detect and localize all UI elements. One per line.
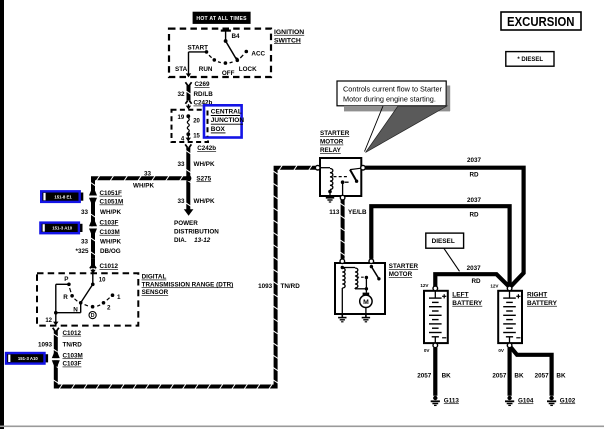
svg-text:32: 32 [177, 91, 185, 98]
svg-text:0V: 0V [498, 348, 505, 353]
svg-text:LOCK: LOCK [239, 66, 257, 73]
wire 33 WH/PK branch to C1051 [93, 178, 186, 190]
svg-text:C103M: C103M [63, 352, 83, 359]
connector C103F C103M [91, 221, 95, 259]
starter motor ground left [341, 314, 343, 317]
relay actuator dashed link [334, 176, 349, 178]
starter motor terminal left [340, 259, 345, 264]
svg-text:HOT AT ALL TIMES: HOT AT ALL TIMES [196, 16, 247, 22]
svg-text:TRANSMISSION RANGE (DTR): TRANSMISSION RANGE (DTR) [142, 281, 234, 288]
svg-text:33: 33 [177, 198, 185, 205]
svg-text:SWITCH: SWITCH [274, 37, 301, 44]
cable 2057 BK left battery to G113 [433, 348, 437, 396]
DTR wire P to pin 12 [56, 283, 69, 285]
svg-text:G113: G113 [444, 397, 460, 404]
svg-text:1: 1 [117, 294, 121, 301]
svg-text:BK: BK [556, 373, 566, 380]
svg-text:IGNITION: IGNITION [274, 29, 304, 36]
arrow out of DTR sensor [53, 322, 58, 326]
svg-text:START: START [188, 45, 209, 52]
svg-text:12V: 12V [420, 283, 429, 288]
svg-text:2037: 2037 [467, 197, 482, 204]
right battery terminal top [507, 286, 512, 291]
cable 2057 BK right battery to G102 [511, 347, 552, 396]
contact RUN [213, 58, 217, 62]
cable 2037 RD left battery link [435, 274, 510, 287]
svg-text:33: 33 [81, 238, 89, 245]
svg-text:C103F: C103F [100, 219, 119, 226]
svg-text:WH/PK: WH/PK [100, 209, 121, 216]
svg-text:RUN: RUN [199, 66, 213, 73]
cable 2037 RD starter to right battery [371, 206, 509, 286]
note box * DIESEL [506, 52, 554, 67]
svg-text:RD: RD [469, 172, 479, 179]
contact LOCK [236, 59, 240, 63]
svg-text:2057: 2057 [535, 373, 550, 380]
relay terminal bottom [340, 195, 345, 200]
cable 2037 RD relay to right battery [365, 168, 523, 287]
starter motor ground right [365, 314, 367, 317]
svg-text:ACC: ACC [251, 50, 265, 57]
starter motor terminal right [369, 259, 374, 264]
connector C103M C103F lower [53, 358, 59, 360]
svg-text:P: P [64, 276, 68, 283]
svg-text:C103M: C103M [100, 229, 120, 236]
svg-text:WH/PK: WH/PK [133, 182, 154, 189]
svg-text:19: 19 [178, 115, 185, 121]
starter solenoid coils [341, 266, 344, 269]
svg-text:15: 15 [193, 133, 200, 139]
digital transmission range sensor box [37, 273, 138, 325]
left battery terminal bottom [433, 343, 438, 348]
testpoint badge 151-3 A10 lower [45, 354, 49, 362]
svg-text:C103F: C103F [63, 361, 82, 368]
svg-text:CENTRAL: CENTRAL [211, 109, 242, 116]
callout pointer [366, 106, 448, 153]
svg-text:BK: BK [514, 373, 524, 380]
central junction box blue label box [204, 105, 242, 137]
arrow to power distribution [184, 209, 194, 216]
ignition switch box [169, 29, 271, 77]
connector C269 [185, 82, 187, 85]
svg-text:BK: BK [442, 373, 452, 380]
svg-text:RD: RD [469, 211, 479, 218]
arrow out of CJB [187, 136, 189, 138]
starter motor armature M [363, 293, 370, 296]
svg-text:2: 2 [107, 304, 111, 311]
svg-text:BOX: BOX [211, 126, 226, 133]
svg-text:STARTER: STARTER [320, 130, 350, 137]
testpoint badge 151-3 A10 upper [79, 224, 83, 232]
relay internal ground [326, 197, 334, 199]
svg-text:WH/PK: WH/PK [194, 161, 215, 168]
svg-text:113: 113 [329, 209, 340, 216]
svg-text:STARTER: STARTER [389, 263, 419, 270]
svg-text:* DIESEL: * DIESEL [517, 57, 543, 63]
relay coil [320, 167, 330, 169]
svg-text:G102: G102 [560, 397, 576, 404]
svg-text:BATTERY: BATTERY [452, 300, 483, 307]
svg-text:33: 33 [81, 209, 89, 216]
CJB fuse element [186, 114, 190, 118]
testpoint badge 151-8 E1 [80, 193, 84, 201]
right battery [498, 291, 522, 343]
svg-text:POWER: POWER [174, 220, 198, 227]
svg-text:STA: STA [175, 66, 188, 73]
svg-text:Controls current flow to Start: Controls current flow to Starter [343, 84, 443, 93]
wire 33 WH/PK upper [186, 147, 190, 176]
svg-text:C269: C269 [195, 81, 211, 88]
svg-text:LEFT: LEFT [452, 291, 468, 298]
svg-text:JUNCTION: JUNCTION [211, 117, 245, 124]
svg-text:RIGHT: RIGHT [527, 291, 547, 298]
svg-text:RD/LB: RD/LB [194, 91, 214, 98]
wire 32 RD/LB [187, 85, 191, 101]
contact START [205, 50, 209, 54]
ground G102 [549, 396, 553, 400]
svg-text:WH/PK: WH/PK [100, 238, 121, 245]
svg-text:R: R [63, 294, 68, 301]
ignition switch wiper B4 to LOCK [224, 39, 228, 43]
svg-text:RELAY: RELAY [320, 147, 342, 154]
arrow into DTR sensor [92, 269, 94, 271]
connector C1012 below DTR [53, 328, 55, 331]
relay contact blade [350, 168, 361, 169]
svg-text:20: 20 [193, 118, 200, 124]
svg-text:MOTOR: MOTOR [389, 271, 413, 278]
svg-text:151-3 A10: 151-3 A10 [18, 356, 39, 361]
svg-text:M: M [363, 299, 369, 306]
svg-text:Motor during engine starting.: Motor during engine starting. [343, 94, 436, 103]
svg-text:151-3 A10: 151-3 A10 [52, 226, 73, 231]
page left edge black bar [0, 0, 4, 429]
power feed label HOT AT ALL TIMES [193, 12, 251, 24]
right battery terminal bottom [507, 343, 512, 348]
svg-text:C242b: C242b [197, 145, 216, 152]
starter motor box [335, 263, 385, 314]
ground G113 [433, 396, 437, 400]
note box DIESEL [426, 233, 464, 248]
central junction box outline [172, 110, 209, 142]
terminal B4 contact bar [221, 30, 231, 32]
page bottom rule line [0, 426, 604, 428]
svg-text:1093: 1093 [38, 342, 53, 349]
left battery terminal top [433, 286, 438, 291]
starter motor relay box [320, 158, 361, 196]
connector C1012 into DTR sensor [91, 258, 95, 268]
svg-text:D: D [91, 313, 95, 319]
svg-text:33: 33 [177, 161, 185, 168]
relay terminal left [315, 165, 320, 170]
svg-text:DIESEL: DIESEL [432, 238, 455, 245]
svg-text:*325: *325 [76, 248, 89, 255]
svg-text:BATTERY: BATTERY [527, 300, 558, 307]
svg-text:S275: S275 [196, 175, 211, 182]
connector C242b below CJB [185, 144, 187, 147]
ground G104 [507, 396, 511, 400]
svg-text:12: 12 [45, 318, 52, 324]
contact ACC [245, 50, 249, 54]
contact OFF [224, 61, 228, 65]
DTR arc dashes [70, 288, 71, 292]
wire 1093 TN/RD vertical [56, 168, 316, 387]
svg-text:C1051M: C1051M [100, 199, 124, 206]
wire 113 YE/LB [341, 200, 345, 259]
svg-text:MOTOR: MOTOR [320, 139, 344, 146]
svg-text:12V: 12V [490, 284, 499, 289]
svg-text:2037: 2037 [467, 265, 482, 272]
svg-text:2057: 2057 [417, 373, 432, 380]
callout note box [337, 81, 446, 106]
svg-text:C1051F: C1051F [100, 190, 123, 197]
contact D circled [91, 305, 95, 309]
switch position arc dashes [209, 55, 212, 58]
svg-text:C1012: C1012 [63, 330, 82, 337]
arrow into central junction box [188, 104, 190, 106]
connector C1051F C1051M [91, 190, 95, 221]
svg-text:10: 10 [99, 277, 106, 283]
svg-text:1093: 1093 [258, 283, 273, 290]
svg-text:C1012: C1012 [100, 263, 119, 270]
svg-text:SENSOR: SENSOR [142, 289, 169, 296]
svg-text:33: 33 [144, 171, 152, 178]
svg-text:OFF: OFF [222, 70, 235, 77]
svg-text:TN/RD: TN/RD [63, 342, 83, 349]
svg-text:G104: G104 [518, 397, 534, 404]
starter solenoid contact [370, 265, 373, 268]
svg-text:WH/PK: WH/PK [194, 198, 215, 205]
svg-text:YE/LB: YE/LB [348, 209, 367, 216]
arrow out of ignition switch [186, 73, 191, 77]
contact 2 [102, 301, 106, 305]
svg-text:B4: B4 [232, 33, 241, 40]
svg-text:151-8 E1: 151-8 E1 [54, 194, 72, 199]
svg-text:DIGITAL: DIGITAL [142, 274, 167, 281]
svg-text:DB/OG: DB/OG [100, 248, 121, 255]
cable 2057 BK right battery to G104 [508, 348, 512, 396]
svg-text:2037: 2037 [467, 157, 482, 164]
relay terminal right [361, 165, 366, 170]
svg-text:DISTRIBUTION: DISTRIBUTION [174, 228, 219, 235]
splice S275 [186, 176, 190, 210]
contact 1 [111, 293, 115, 297]
left battery [424, 291, 448, 343]
connector C242b into CJB [185, 101, 187, 104]
wire START to STA output [189, 51, 207, 53]
svg-text:TN/RD: TN/RD [281, 283, 301, 290]
title box EXCURSION [501, 12, 581, 30]
svg-text:0V: 0V [424, 348, 431, 353]
relay output contact [341, 180, 345, 184]
svg-text:RD: RD [471, 278, 481, 285]
svg-text:EXCURSION: EXCURSION [507, 15, 575, 29]
DTR wiper from pin 10 to N [92, 274, 94, 284]
svg-text:2057: 2057 [492, 373, 507, 380]
